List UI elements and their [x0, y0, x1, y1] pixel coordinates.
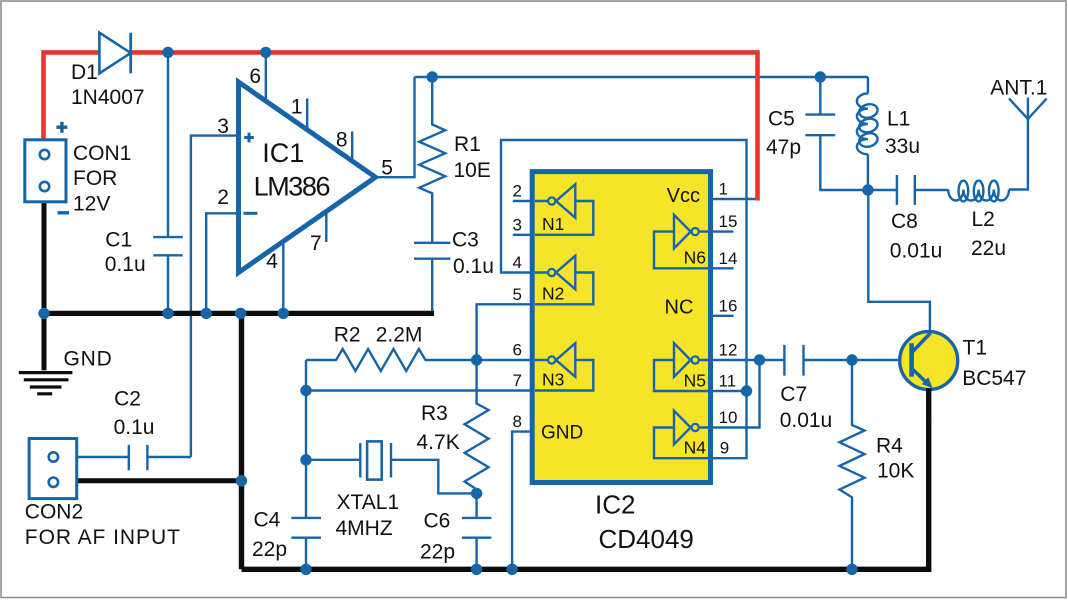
- svg-text:22p: 22p: [420, 541, 455, 564]
- minus mark CON1: [58, 211, 70, 214]
- svg-text:2: 2: [217, 186, 229, 209]
- node dot rail at IC2 pin7: [300, 385, 311, 396]
- ground wire CON2 to vertical rail: [77, 478, 242, 483]
- svg-text:12V: 12V: [73, 193, 110, 216]
- svg-text:1: 1: [719, 180, 728, 199]
- svg-text:0.1u: 0.1u: [453, 255, 494, 278]
- svg-text:4MHZ: 4MHZ: [336, 517, 393, 540]
- node dot lower bus at R4: [846, 564, 857, 575]
- transistor T1 emitter stroke with arrow: [912, 369, 927, 383]
- ground bus lower and T1 emitter drop: [242, 420, 929, 569]
- svg-text:15: 15: [719, 212, 738, 231]
- node dot rail at XTAL1: [300, 454, 311, 465]
- svg-text:47p: 47p: [766, 136, 801, 159]
- wire IC1 pin1 stub: [306, 99, 308, 130]
- svg-text:T1: T1: [963, 337, 988, 360]
- inverter N2: [535, 256, 593, 305]
- svg-text:N1: N1: [542, 214, 564, 234]
- svg-text:CD4049: CD4049: [599, 524, 694, 554]
- node dot supply line at C5: [815, 71, 826, 82]
- capacitor C6: [462, 518, 492, 538]
- svg-text:C3: C3: [452, 229, 479, 252]
- wire C1 vertical: [167, 52, 169, 313]
- antenna ANT.1: [1009, 98, 1047, 120]
- svg-text:XTAL1: XTAL1: [337, 491, 400, 514]
- wire IC2 pin16 stub: [712, 315, 734, 317]
- wire IC2 pin11 stub: [712, 390, 747, 392]
- capacitor C1: [153, 237, 182, 255]
- resistor R3: [465, 360, 489, 493]
- capacitor C4: [291, 518, 321, 538]
- node dot CON2 ground: [236, 475, 247, 486]
- svg-text:L1: L1: [887, 107, 910, 130]
- ground symbol: [19, 373, 73, 394]
- svg-text:FOR: FOR: [73, 167, 117, 190]
- crystal XTAL1 body: [367, 441, 382, 479]
- inverter N5: [654, 343, 708, 391]
- svg-text:IC1: IC1: [262, 138, 304, 168]
- svg-text:N4: N4: [684, 438, 707, 458]
- svg-text:7: 7: [513, 371, 522, 390]
- svg-text:12: 12: [719, 341, 738, 360]
- node dot lower bus at IC2 pin8: [506, 564, 517, 575]
- op-amp IC1: [239, 82, 376, 273]
- svg-text:BC547: BC547: [962, 367, 1026, 390]
- svg-text:C8: C8: [891, 210, 918, 233]
- svg-text:10E: 10E: [454, 159, 491, 182]
- node dot tank junction: [862, 184, 873, 195]
- wire IC2 pin6 to R2 node: [477, 359, 531, 361]
- svg-text:C5: C5: [768, 107, 795, 130]
- wire emitter black over circle: [926, 389, 931, 422]
- wire C7 to base node: [804, 359, 853, 361]
- node dot C7 R4 base: [846, 354, 857, 365]
- svg-text:N5: N5: [684, 371, 706, 391]
- svg-text:LM386: LM386: [254, 171, 330, 201]
- node dot lower bus at C4: [300, 564, 311, 575]
- svg-text:9: 9: [720, 439, 729, 458]
- capacitor C5 leads: [820, 77, 868, 190]
- inductor L2 coil: [948, 190, 1009, 201]
- svg-text:0.01u: 0.01u: [890, 240, 943, 263]
- node dot on red rail at IC1 pin6: [260, 47, 271, 58]
- capacitor C7: [784, 345, 803, 376]
- wire C8 to L2: [915, 189, 948, 191]
- svg-text:R3: R3: [421, 402, 448, 425]
- wire C3 to ground bus end: [431, 259, 433, 312]
- plus mark CON1: [56, 122, 67, 133]
- svg-text:10: 10: [719, 408, 738, 427]
- svg-text:R2: R2: [334, 323, 361, 346]
- svg-text:4: 4: [513, 253, 522, 272]
- wire IC2 pin8 to ground bus: [512, 432, 531, 570]
- svg-text:0.01u: 0.01u: [780, 409, 833, 432]
- wire IC1 pin5 output up to supply node: [376, 77, 415, 177]
- capacitor C8: [897, 175, 915, 205]
- svg-text:4: 4: [266, 250, 278, 273]
- svg-text:11: 11: [719, 372, 737, 391]
- hex inverter IC2 body: [532, 172, 710, 483]
- svg-text:N2: N2: [542, 284, 564, 304]
- crystal XTAL1 leads: [306, 460, 477, 494]
- wire IC2 pin1 stub to +12V: [712, 198, 758, 200]
- svg-text:2.2M: 2.2M: [376, 323, 423, 346]
- svg-text:8: 8: [513, 412, 522, 431]
- svg-text:33u: 33u: [885, 135, 920, 158]
- ground vertical rail: [239, 311, 244, 569]
- inductor L1 coil: [857, 94, 868, 155]
- wire IC1 pin4 to ground bus: [282, 242, 284, 314]
- wire top horizontal node R1/C5/L1: [415, 76, 868, 78]
- inverter N3: [535, 343, 593, 390]
- svg-text:Vcc: Vcc: [667, 185, 700, 207]
- wire IC2 pin7 to rail: [306, 389, 531, 391]
- inductor L1 leads: [867, 77, 869, 190]
- wire IC2 pin12 to C7: [712, 359, 784, 361]
- inverter N1: [535, 184, 593, 235]
- capacitor C2: [129, 445, 148, 470]
- wire IC1 pin2 to ground bus: [206, 213, 238, 313]
- svg-text:22p: 22p: [252, 538, 287, 561]
- wire R2 left rail: [305, 360, 307, 569]
- svg-text:C4: C4: [254, 509, 281, 532]
- wire L2 to antenna: [1009, 119, 1028, 190]
- svg-text:8: 8: [336, 128, 348, 151]
- node dot lower bus at C6: [471, 564, 482, 575]
- svg-text:ANT.1: ANT.1: [990, 76, 1047, 99]
- svg-text:D1: D1: [71, 61, 98, 84]
- node dot R2 R3 pin6 junction: [471, 354, 482, 365]
- wire IC2 pin4 wrap over top to pins 11 and 9: [501, 140, 747, 458]
- +12V red supply wire: [44, 52, 758, 200]
- node dot R3 XTAL1 C6 junction: [471, 488, 482, 499]
- transistor T1 body: [900, 332, 958, 390]
- wire tank node to C8: [868, 189, 897, 191]
- svg-text:22u: 22u: [971, 237, 1006, 260]
- svg-text:10K: 10K: [877, 460, 914, 483]
- svg-text:2: 2: [513, 182, 522, 201]
- svg-text:5: 5: [381, 156, 393, 179]
- connector CON1: [25, 140, 66, 202]
- ground wire CON1 down: [42, 200, 47, 370]
- plus mark IC1: [244, 133, 254, 143]
- svg-text:R4: R4: [876, 435, 903, 458]
- svg-text:NC: NC: [665, 297, 694, 319]
- svg-text:IC2: IC2: [595, 490, 635, 520]
- svg-text:C1: C1: [105, 229, 132, 252]
- svg-text:CON2: CON2: [25, 501, 83, 524]
- inverter N4: [654, 411, 708, 459]
- inverter N6: [654, 215, 708, 268]
- svg-text:CON1: CON1: [73, 142, 131, 165]
- node dot pin12 C7: [754, 354, 765, 365]
- node dot on red rail at C1: [162, 47, 173, 58]
- wire IC2 pin3 stub: [513, 234, 531, 236]
- ground bus upper: [41, 311, 434, 316]
- transistor T1 base bar: [909, 343, 914, 377]
- svg-text:R1: R1: [454, 133, 481, 156]
- svg-text:4.7K: 4.7K: [417, 431, 460, 454]
- svg-text:C7: C7: [780, 383, 807, 406]
- transistor T1 collector stroke: [912, 333, 931, 353]
- wire C6 vertical: [475, 493, 477, 569]
- resistor R4: [840, 360, 865, 569]
- node dot bus at IC1 pin4: [278, 308, 289, 319]
- node dot bus at C1: [162, 308, 173, 319]
- wire collector of T1 to tank node: [868, 190, 930, 333]
- capacitor C5: [805, 115, 835, 136]
- node dot bus at vertical rail: [235, 308, 246, 319]
- resistor R1: [419, 77, 445, 243]
- svg-text:0.1u: 0.1u: [114, 416, 155, 439]
- svg-text:L2: L2: [972, 208, 995, 231]
- resistor R2: [306, 349, 477, 371]
- wire IC1 pin3 to C2 riser: [191, 136, 239, 457]
- svg-text:16: 16: [719, 296, 738, 315]
- svg-text:C2: C2: [114, 388, 141, 411]
- node dot bus at IC1 pin2: [201, 308, 212, 319]
- crystal XTAL1 plates: [360, 443, 391, 478]
- svg-text:FOR AF INPUT: FOR AF INPUT: [25, 526, 181, 549]
- svg-text:3: 3: [217, 115, 229, 138]
- wire IC2 pin2 stub: [513, 200, 531, 202]
- svg-text:GND: GND: [64, 348, 113, 371]
- wire base of T1: [852, 359, 912, 361]
- diode D1: [99, 33, 130, 74]
- svg-text:1N4007: 1N4007: [71, 86, 145, 109]
- wire IC1 pin6 from +12V rail: [265, 52, 267, 101]
- wire IC2 pin10 to pin12 node: [712, 360, 760, 428]
- minus mark IC1: [244, 212, 258, 215]
- wire IC2 pin14 stub: [712, 267, 734, 269]
- capacitor C3: [414, 243, 450, 259]
- node dot bus at CON1: [38, 308, 49, 319]
- wire IC2 pin15 stub: [712, 230, 734, 232]
- wire IC2 pin5 wrap down to pin6 node: [477, 304, 531, 360]
- svg-text:N3: N3: [542, 370, 564, 390]
- svg-text:14: 14: [719, 249, 738, 268]
- svg-text:3: 3: [513, 215, 522, 234]
- svg-text:6: 6: [513, 341, 522, 360]
- svg-text:0.1u: 0.1u: [105, 253, 146, 276]
- connector CON2: [29, 439, 77, 499]
- svg-text:5: 5: [513, 285, 522, 304]
- svg-text:N6: N6: [684, 247, 706, 267]
- svg-text:1: 1: [291, 96, 303, 119]
- svg-text:6: 6: [249, 65, 261, 88]
- svg-text:C6: C6: [424, 510, 451, 533]
- node dot supply line at R1: [427, 71, 438, 82]
- wire IC1 pin8 stub: [351, 132, 353, 162]
- wire C2 from CON2: [77, 456, 191, 458]
- svg-text:GND: GND: [541, 423, 583, 444]
- svg-text:7: 7: [310, 232, 322, 255]
- wire IC1 pin7 stub: [325, 212, 327, 243]
- node dot pin11 tie: [741, 385, 752, 396]
